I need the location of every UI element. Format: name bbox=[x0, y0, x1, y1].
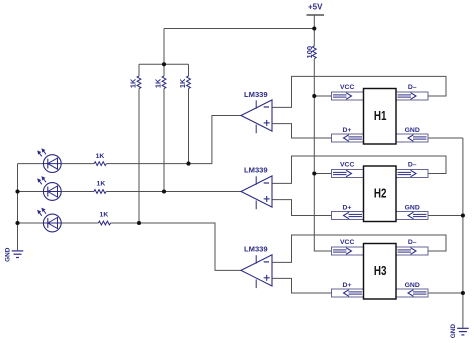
svg-text:GND: GND bbox=[405, 204, 420, 211]
svg-text:1K: 1K bbox=[153, 78, 162, 88]
svg-text:VCC: VCC bbox=[340, 239, 354, 246]
svg-text:H3: H3 bbox=[374, 264, 387, 278]
svg-text:+5V: +5V bbox=[308, 2, 323, 11]
svg-text:D+: D+ bbox=[343, 127, 352, 134]
svg-text:1K: 1K bbox=[178, 78, 187, 88]
svg-text:H2: H2 bbox=[374, 187, 387, 201]
svg-text:D–: D– bbox=[408, 239, 417, 246]
svg-text:D+: D+ bbox=[343, 204, 352, 211]
svg-text:LM339: LM339 bbox=[244, 245, 268, 254]
svg-text:D–: D– bbox=[408, 84, 417, 91]
svg-text:VCC: VCC bbox=[340, 84, 354, 91]
svg-text:GND: GND bbox=[450, 324, 457, 339]
svg-text:GND: GND bbox=[5, 247, 12, 262]
svg-text:D+: D+ bbox=[343, 282, 352, 289]
svg-text:1K: 1K bbox=[96, 153, 105, 160]
svg-text:D–: D– bbox=[408, 161, 417, 168]
svg-text:GND: GND bbox=[405, 127, 420, 134]
svg-text:GND: GND bbox=[405, 282, 420, 289]
svg-text:1K: 1K bbox=[100, 211, 109, 218]
svg-text:100: 100 bbox=[305, 46, 314, 59]
svg-text:H1: H1 bbox=[374, 109, 387, 123]
svg-text:VCC: VCC bbox=[340, 161, 354, 168]
svg-text:LM339: LM339 bbox=[244, 90, 268, 99]
svg-text:1K: 1K bbox=[128, 78, 137, 88]
svg-text:1K: 1K bbox=[97, 181, 106, 188]
svg-text:LM339: LM339 bbox=[244, 165, 268, 174]
